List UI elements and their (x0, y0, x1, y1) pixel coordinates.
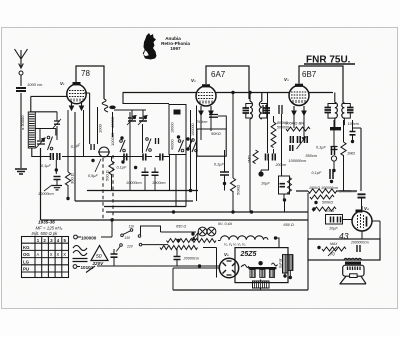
trimmer arrow (53, 119, 61, 128)
capacitor near jack (91, 144, 94, 150)
variable capacitor C1 (37, 141, 45, 144)
wire heater end (276, 238, 280, 248)
svg-text:20000cm: 20000cm (183, 257, 200, 261)
wire dot H drop (284, 200, 286, 212)
wire V3 diode leg (281, 114, 283, 176)
switch arm mains (86, 266, 95, 273)
junction dot G (259, 172, 262, 175)
junction dot U (231, 91, 234, 94)
V3 bottom caps (263, 105, 266, 114)
dashed gang line 1 (102, 158, 104, 220)
rectifier plate bar (248, 267, 276, 269)
junction dot M (172, 210, 175, 213)
right bus vertical (353, 128, 362, 191)
junction dot F (223, 182, 226, 185)
junction dot B (66, 197, 69, 200)
electrolytic cap 2 (288, 255, 293, 271)
wire cap to box (218, 116, 226, 129)
wire avc col (267, 93, 269, 153)
pot resistor (322, 247, 346, 251)
wire cap 20000 (176, 248, 178, 266)
x334 wire (333, 120, 335, 169)
wire V1 screen drop (74, 112, 76, 201)
svg-text:X: X (57, 252, 60, 257)
IF2 ground blob (330, 127, 341, 130)
tube V3 circle (289, 86, 309, 106)
pilot lamp 2 (207, 227, 216, 236)
DC bars symbol (73, 259, 88, 262)
wire loop down (283, 194, 285, 199)
wire V4 top (361, 206, 363, 211)
wire S6 to bus (185, 152, 187, 207)
ballast resistor 650 (167, 239, 217, 243)
mini ground (52, 186, 62, 190)
tube V1 grid cap (73, 82, 81, 85)
IF1 cap left loop (246, 104, 252, 119)
wire cap to mini ground (56, 180, 58, 186)
wire box bottom (260, 280, 262, 291)
tube V4 grid cap (356, 210, 363, 213)
IF2 cap right loop (343, 104, 350, 119)
wire V3 right leg (303, 115, 305, 136)
tube V1 cathode arrows (70, 101, 84, 110)
svg-text:250cm: 250cm (195, 120, 207, 124)
wire loop to tube (343, 219, 353, 221)
svg-text:10101: 10101 (81, 265, 94, 270)
cap 10000cm pair (142, 172, 149, 175)
cap 10uF (280, 184, 286, 187)
wire cap det (224, 166, 226, 184)
speaker body (343, 265, 364, 276)
trimmer cap (54, 121, 60, 124)
tube V1 internals (69, 91, 84, 97)
gang arrow 1 (127, 116, 136, 126)
junction dot I (351, 140, 354, 143)
svg-text:1000 cm: 1000 cm (27, 82, 43, 87)
svg-text:LG: LG (23, 259, 30, 264)
wire plug to bus (101, 220, 112, 237)
tube V2 cathode arrows (199, 106, 213, 115)
svg-text:130: 130 (124, 236, 130, 240)
caps cluster V3 (291, 136, 294, 143)
wire v6 left drop (173, 268, 220, 290)
wire resistor 50k (232, 93, 234, 213)
switch S3 (146, 138, 149, 141)
IF2 cap left loop (328, 104, 336, 119)
svg-text:1997: 1997 (170, 46, 181, 51)
tube V6 circle (219, 258, 238, 277)
cap 250cm (209, 115, 218, 118)
grid loop V3 (299, 66, 343, 102)
svg-text:650 Ω.: 650 Ω. (284, 223, 295, 227)
wire V2 left leg (200, 115, 202, 140)
resistor 1M vertical (253, 150, 258, 164)
svg-text:2000000cm: 2000000cm (350, 241, 369, 245)
svg-text:200cm: 200cm (275, 163, 287, 167)
resistor 500ohm (109, 161, 114, 175)
junction dot C (120, 136, 123, 139)
svg-text:650 Ω: 650 Ω (176, 225, 186, 229)
svg-text:X: X (63, 252, 66, 257)
junction dot J (332, 169, 335, 172)
junction dot O (91, 159, 94, 162)
output box (308, 239, 380, 260)
svg-text:500 Ω: 500 Ω (105, 170, 110, 181)
wire antenna down (20, 75, 22, 86)
switch S6 (186, 137, 189, 140)
squiggle blob (109, 106, 115, 110)
plug symbol 2 (73, 265, 77, 269)
cap det (220, 172, 229, 175)
svg-text:100000cm: 100000cm (339, 190, 356, 194)
IF1 coil primary (250, 93, 252, 120)
main bus y220 (41, 219, 309, 221)
tube V2 circle (196, 86, 216, 106)
svg-text:0,1µF: 0,1µF (117, 166, 127, 170)
cap r1 (332, 146, 335, 155)
svg-text:6V- 0,4A: 6V- 0,4A (218, 222, 232, 226)
wire resistor ends (67, 185, 69, 199)
svg-text:10µF: 10µF (329, 227, 338, 231)
tube V4 internals (358, 214, 364, 229)
svg-text:25Z5: 25Z5 (240, 251, 257, 258)
wire V3 plate right (309, 92, 333, 94)
capacitor 1000cm (16, 88, 26, 91)
squiggle below loop V1 (102, 99, 108, 112)
IF2 coil primary (335, 103, 338, 119)
x334 col cap (331, 147, 338, 150)
speaker cone (340, 276, 366, 283)
svg-text:500000: 500000 (277, 126, 289, 130)
svg-text:1000: 1000 (98, 123, 103, 133)
svg-text:V₆: V₆ (224, 252, 229, 257)
resistor r vert (341, 142, 346, 156)
resistor 50k vertical (230, 178, 235, 192)
IF1 coil secondary (259, 93, 261, 120)
rectifier dot (258, 261, 262, 265)
cap pair mid (156, 138, 159, 144)
tube V3 grid cap (295, 84, 303, 87)
jack line (98, 151, 110, 153)
mains triangle (91, 246, 108, 261)
gang capacitor 2 (139, 118, 147, 121)
junction dot P (189, 189, 192, 192)
caps 200cm (266, 154, 269, 161)
svg-text:0,1µF: 0,1µF (41, 164, 51, 168)
tube V1 circle (67, 84, 86, 103)
ballast tap arrow (192, 232, 199, 241)
title underline (304, 63, 355, 65)
jack circle (99, 147, 109, 157)
series caps row1 (51, 153, 54, 160)
wire V2 plate to V3 (216, 92, 289, 94)
rectifier post 3 (269, 270, 274, 278)
selector arm (123, 231, 130, 235)
IF1 cap right loop (261, 104, 267, 119)
IF2 cap left (325, 108, 332, 113)
bottom bus (173, 289, 308, 291)
svg-text:0,1µF: 0,1µF (316, 146, 326, 150)
wire drop right (307, 193, 309, 239)
grid loop V1 (76, 66, 104, 99)
IF1 cap right (264, 108, 271, 113)
caps row y155 (143, 154, 146, 161)
svg-text:1935-36: 1935-36 (38, 220, 55, 225)
svg-text:8µF Br: 8µF Br (279, 257, 283, 268)
label arrow jack (95, 159, 101, 172)
tube V3 internals (291, 92, 307, 98)
svg-text:V₁: V₁ (60, 81, 65, 86)
heater end dot (274, 236, 277, 239)
wire coil bottom (32, 148, 169, 157)
selector wire to ballast (142, 244, 168, 246)
rectifier squiggle right (272, 263, 278, 266)
wire V1 plate (84, 93, 90, 144)
gang capacitor 1 (128, 118, 136, 121)
wire V2 right leg (210, 115, 212, 131)
wire V1 grid to coil (31, 96, 67, 112)
electrolytic cap 1 (283, 255, 288, 273)
wire ballast to chain (218, 240, 221, 242)
svg-text:V₄: V₄ (364, 206, 369, 211)
cap 10uF loop (279, 176, 290, 194)
svg-text:220V: 220V (92, 261, 105, 266)
svg-text:1000cm: 1000cm (152, 181, 166, 185)
svg-text:100000: 100000 (81, 236, 97, 241)
svg-text:X: X (50, 252, 53, 257)
bus y212 (106, 211, 308, 213)
osc coil box (169, 105, 186, 155)
svg-text:6B7: 6B7 (302, 70, 317, 79)
antenna coil hatch (29, 114, 35, 146)
antenna (15, 49, 28, 68)
cap 20000cm (174, 257, 181, 260)
svg-text:100KΩ 100000cm: 100KΩ 100000cm (309, 186, 338, 190)
bus y190 left (87, 190, 198, 192)
junction dot L (110, 218, 113, 221)
logo cat silhouette (143, 33, 157, 60)
svg-text:50KΩ: 50KΩ (211, 132, 221, 136)
wire electrolytics (285, 270, 290, 276)
svg-text:70: 70 (330, 252, 335, 257)
svg-text:100000: 100000 (191, 123, 195, 136)
wire v6 loop (160, 246, 217, 278)
variable arrow C1 (36, 138, 45, 148)
bus pad end (358, 194, 366, 197)
bus y206.5 (104, 206, 186, 208)
bus y201 (75, 200, 193, 202)
svg-text:500KΩ: 500KΩ (322, 201, 333, 205)
ballast tap dot (177, 239, 180, 242)
wire V4 bottom (361, 231, 363, 239)
wire gang left (129, 112, 131, 155)
wire trimmer drop (56, 112, 58, 140)
ground main (15, 169, 27, 174)
svg-text:10000cm: 10000cm (126, 181, 142, 185)
pot arrow (328, 247, 337, 257)
wire lamps left (197, 233, 199, 240)
cap r2 (330, 169, 333, 179)
wire det down (224, 150, 226, 191)
left frame vertical (40, 148, 42, 220)
junction dot T (330, 180, 333, 183)
selector wire loop (141, 226, 197, 235)
svg-text:10000: 10000 (171, 122, 175, 133)
svg-text:OG: OG (23, 252, 30, 257)
selector wire 220 (116, 246, 120, 252)
junction dot Q (231, 210, 234, 213)
variable arrow V3 caps (297, 137, 306, 149)
grid loop V2 (206, 66, 249, 99)
pot dot (317, 246, 320, 249)
wire avc down (261, 161, 269, 175)
label arrow 10000cm (44, 185, 52, 191)
svg-text:50KΩ: 50KΩ (236, 185, 241, 195)
svg-text:A: A (37, 252, 40, 257)
svg-text:1MΩ: 1MΩ (347, 152, 355, 156)
cap V3 extra (290, 145, 293, 151)
junction dot N (198, 264, 201, 267)
tube V4 circle (352, 211, 372, 231)
svg-text:0,1µF: 0,1µF (312, 171, 322, 175)
svg-text:V₂: V₂ (191, 78, 196, 83)
resistor 600 (312, 207, 336, 211)
junction dot D (134, 166, 137, 169)
wire coil top bus (30, 111, 57, 114)
AC sine symbol (73, 246, 87, 256)
svg-text:78: 78 (81, 69, 90, 78)
svg-text:500KΩ BR: 500KΩ BR (285, 121, 304, 126)
wire antenna to ground (20, 93, 22, 168)
output transformer (344, 258, 362, 260)
junction dot V (121, 160, 124, 163)
wire caps pair (145, 168, 155, 180)
svg-text:300 Ω: 300 Ω (70, 173, 75, 184)
switch S5 (192, 139, 195, 142)
rectifier box 25Z5 (235, 248, 288, 283)
wire coil tap (35, 129, 56, 141)
wire V2 cathode col (196, 106, 198, 202)
x334 circle (331, 156, 336, 161)
junction dot R (250, 210, 253, 213)
wire cap top (97, 107, 99, 144)
tube V2 internals (198, 93, 214, 99)
svg-text:0,5µF: 0,5µF (88, 174, 98, 178)
wire IF1 mid (249, 119, 251, 212)
tube V2 grid cap (202, 84, 210, 87)
antenna coil box (28, 112, 35, 148)
wire gang mid (142, 124, 144, 153)
mains plug symbol (74, 235, 78, 239)
wire V4 grid (372, 221, 380, 239)
resistor 50k box (197, 129, 226, 156)
wire diode cap (352, 120, 354, 140)
IF2 cap right (347, 108, 354, 113)
junction dot K (314, 201, 317, 204)
osc section wire (112, 112, 114, 137)
svg-text:V₅ V₄ V₁ V₂ V₃: V₅ V₄ V₁ V₂ V₃ (224, 243, 246, 247)
wire bus to V2 grid (123, 92, 198, 94)
capacitor to ground 10000cm (54, 177, 61, 180)
wire box drop (307, 260, 309, 290)
resistor 100k on bus (308, 189, 337, 193)
capacitor mains (111, 254, 118, 257)
antenna terminal (19, 71, 23, 75)
svg-text:KG: KG (23, 245, 30, 250)
svg-text:110: 110 (129, 225, 135, 229)
wire node A (55, 160, 57, 174)
rectifier post 2 (260, 270, 265, 278)
IF2 coil secondary (342, 103, 345, 119)
svg-text:10µF: 10µF (261, 182, 270, 186)
speaker base (340, 283, 367, 285)
wire mains to rectifier (97, 265, 220, 267)
svg-text:220: 220 (126, 245, 133, 249)
cap tone (357, 245, 360, 252)
IF1 cap left (243, 108, 250, 113)
switch S4 (178, 140, 181, 143)
caps loop V4 (326, 215, 343, 225)
band table grid (22, 237, 69, 278)
rectifier squiggle left (241, 265, 249, 268)
junction dot E (177, 135, 180, 138)
svg-text:0,1µF: 0,1µF (214, 163, 224, 167)
wire squiggle to gang (114, 110, 146, 117)
tube V3 cathode arrows (292, 106, 306, 115)
switch S2 (120, 140, 123, 143)
bus y191 right (296, 190, 357, 192)
svg-text:550cm: 550cm (306, 154, 317, 158)
dashed gang line 2 (112, 155, 114, 220)
tube V6 internals (223, 263, 236, 274)
svg-text:6A7: 6A7 (211, 70, 226, 79)
wire V1 left leg (67, 110, 69, 172)
cap diode top (350, 132, 356, 135)
wire osc right column (190, 110, 192, 191)
wire avc col2 (273, 116, 275, 154)
wire V3 left leg (293, 115, 295, 128)
switch S1 (47, 136, 50, 139)
resistor 500k row2 (310, 195, 334, 199)
voltage selector circles (130, 229, 133, 232)
resistor 300ohm (65, 172, 70, 186)
heater chain coil (221, 236, 268, 240)
svg-text:MF = 125 κH₂: MF = 125 κH₂ (36, 226, 63, 231)
junction dot H (283, 198, 286, 201)
resistor 1k (288, 178, 292, 195)
svg-text:V₃: V₃ (284, 77, 289, 82)
svg-text:40000: 40000 (171, 139, 175, 150)
electrolytic dots (283, 274, 286, 277)
svg-text:100000cm: 100000cm (289, 159, 307, 163)
gang arrow 2 (138, 116, 147, 126)
IF2 wire drops (335, 93, 345, 130)
resistor avc vertical (271, 122, 276, 148)
pilot lamp 1 (198, 227, 207, 236)
svg-text:a 30000: a 30000 (20, 115, 25, 130)
svg-text:PU: PU (23, 267, 29, 272)
svg-text:1MΩ: 1MΩ (248, 155, 252, 163)
svg-text:100cm: 100cm (348, 122, 359, 126)
junction dot A (55, 168, 58, 171)
junction dot S (312, 207, 315, 210)
surge resistor below (253, 281, 270, 288)
wire osc box legs (170, 155, 177, 207)
svg-text:Injlt. 500 Ω pk: Injlt. 500 Ω pk (32, 231, 59, 236)
resistor 500k horizontal (286, 127, 310, 131)
rectifier post 1 (250, 270, 255, 278)
wire V1 right leg (83, 110, 85, 157)
